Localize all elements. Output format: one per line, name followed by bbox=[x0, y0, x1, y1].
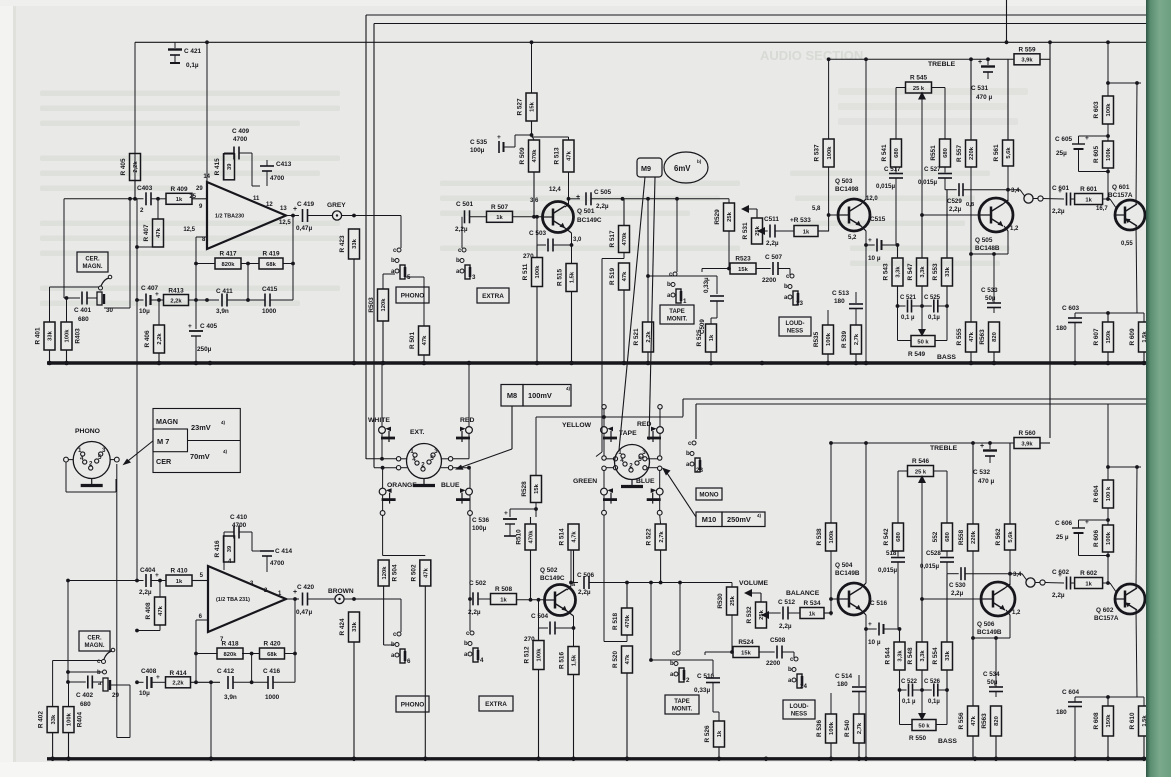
svg-text:4: 4 bbox=[480, 657, 484, 664]
resistor R413 bbox=[164, 288, 220, 306]
svg-text:BASS: BASS bbox=[938, 738, 957, 745]
svg-text:5: 5 bbox=[638, 456, 642, 463]
capacitor C501 2,2u bbox=[455, 201, 486, 233]
svg-text:0,47µ: 0,47µ bbox=[296, 609, 312, 616]
svg-text:R 415: R 415 bbox=[214, 158, 221, 175]
resistor R 532 bbox=[746, 593, 767, 628]
svg-text:C 512: C 512 bbox=[778, 599, 795, 606]
svg-text:R 407: R 407 bbox=[143, 224, 150, 241]
wire R527 col bbox=[530, 40, 534, 93]
resistor R 561 bbox=[993, 59, 1014, 166]
svg-text:100k: 100k bbox=[829, 530, 835, 544]
svg-text:GREEN: GREEN bbox=[573, 478, 597, 485]
wire Q505 collector stub bbox=[1003, 200, 1008, 204]
wire fb2 top right bbox=[252, 532, 260, 551]
svg-text:1k: 1k bbox=[717, 730, 723, 737]
svg-text:R 502: R 502 bbox=[410, 564, 417, 581]
capacitor C512 2,2u bbox=[769, 599, 800, 630]
label BASS ch2 bbox=[938, 738, 957, 745]
wire vol ch2 feed bbox=[731, 583, 733, 588]
svg-text:MAGN: MAGN bbox=[156, 417, 178, 426]
wire Q602 emitter up bbox=[1108, 465, 1141, 588]
wire ch2 input row bbox=[68, 579, 144, 583]
connector EXT DIN bbox=[407, 444, 442, 486]
svg-text:R 508: R 508 bbox=[495, 586, 512, 593]
wire C409 loop bbox=[223, 153, 225, 180]
svg-text:R 562: R 562 bbox=[995, 528, 1002, 545]
svg-text:TAPE: TAPE bbox=[669, 309, 685, 315]
capacitor C528 0,015u bbox=[920, 550, 954, 574]
svg-text:b: b bbox=[686, 451, 690, 457]
svg-text:100k: 100k bbox=[1106, 531, 1112, 545]
svg-text:100 k: 100 k bbox=[1106, 486, 1112, 501]
svg-text:25µ: 25µ bbox=[1056, 150, 1067, 157]
svg-text:820k: 820k bbox=[224, 652, 238, 658]
svg-text:25 k: 25 k bbox=[913, 86, 925, 92]
wire switch29 loop bbox=[110, 685, 130, 738]
svg-text:+: + bbox=[980, 443, 984, 450]
svg-text:470 µ: 470 µ bbox=[976, 94, 992, 101]
capacitor C517 0,015u bbox=[876, 166, 903, 245]
svg-text:C 416: C 416 bbox=[263, 668, 280, 675]
wire ch2 row left col bbox=[66, 579, 70, 682]
svg-text:R 401: R 401 bbox=[35, 327, 42, 344]
svg-text:C 517: C 517 bbox=[884, 166, 901, 173]
resistor R 610 bbox=[1129, 706, 1150, 759]
resistor R 556 bbox=[958, 638, 979, 759]
label +R533 bbox=[790, 217, 811, 224]
svg-text:2,2µ: 2,2µ bbox=[951, 590, 964, 597]
svg-text:Q 602: Q 602 bbox=[1096, 607, 1114, 614]
wire ch2 sig row bbox=[571, 582, 578, 584]
svg-text:C 532: C 532 bbox=[973, 469, 990, 476]
svg-text:5,2: 5,2 bbox=[848, 235, 857, 241]
svg-text:R 602: R 602 bbox=[1080, 570, 1097, 577]
capacitor C531 470u bbox=[971, 59, 995, 101]
wire R408 link bbox=[158, 579, 162, 597]
svg-text:R 512: R 512 bbox=[524, 646, 531, 663]
connector plug out ch1 a bbox=[1024, 194, 1033, 203]
wiper R531 bbox=[757, 227, 765, 235]
capacitor C409 4700 bbox=[224, 128, 252, 160]
svg-text:C 522: C 522 bbox=[901, 679, 918, 685]
svg-text:C 531: C 531 bbox=[971, 85, 988, 92]
svg-text:R 515: R 515 bbox=[557, 269, 564, 286]
capacitor C508 2200 bbox=[759, 637, 794, 667]
resistor R 547 bbox=[907, 215, 928, 306]
wire Q506 collector stub bbox=[1005, 584, 1010, 588]
label CER MAGN ch1 bbox=[77, 252, 108, 272]
svg-text:Q 501: Q 501 bbox=[577, 208, 595, 215]
svg-text:3,3k: 3,3k bbox=[898, 650, 904, 662]
svg-text:R 559: R 559 bbox=[1018, 46, 1035, 53]
wire R609 top bbox=[1137, 313, 1144, 322]
wire extra col ch2 bbox=[469, 599, 471, 631]
svg-text:0,33µ: 0,33µ bbox=[694, 687, 710, 694]
svg-text:1k: 1k bbox=[1085, 581, 1092, 587]
svg-text:0,33µ: 0,33µ bbox=[703, 277, 710, 293]
resistor R 402 bbox=[38, 707, 59, 759]
svg-text:13: 13 bbox=[280, 206, 287, 212]
svg-text:Q 506: Q 506 bbox=[977, 621, 995, 628]
svg-text:MAGN.: MAGN. bbox=[85, 643, 105, 649]
resistor R 531 bbox=[742, 209, 763, 244]
svg-text:33k: 33k bbox=[48, 330, 54, 340]
resistor R563 bbox=[979, 322, 1000, 363]
resistor R 601 bbox=[1075, 186, 1103, 205]
svg-text:25 µ: 25 µ bbox=[1056, 534, 1069, 541]
svg-text:R 416: R 416 bbox=[214, 540, 221, 557]
wire R545 right lead bbox=[932, 88, 946, 140]
svg-text:12: 12 bbox=[266, 202, 273, 208]
svg-text:R 419: R 419 bbox=[262, 251, 279, 258]
svg-text:680: 680 bbox=[896, 532, 902, 542]
wire R546 right lead bbox=[934, 471, 948, 523]
svg-text:270: 270 bbox=[523, 253, 534, 260]
svg-text:5: 5 bbox=[430, 455, 434, 462]
svg-text:R 410: R 410 bbox=[170, 568, 187, 575]
svg-text:R524: R524 bbox=[738, 639, 754, 646]
svg-text:0,015µ: 0,015µ bbox=[878, 567, 897, 574]
svg-text:WHITE: WHITE bbox=[368, 417, 390, 424]
svg-text:2,2µ: 2,2µ bbox=[779, 623, 792, 630]
svg-text:R 541: R 541 bbox=[881, 144, 888, 161]
svg-text:R 560: R 560 bbox=[1018, 430, 1035, 437]
svg-text:470k: 470k bbox=[622, 232, 628, 246]
svg-text:R 555: R 555 bbox=[956, 328, 963, 345]
svg-text:C528: C528 bbox=[926, 550, 941, 557]
resistor R 604 bbox=[1093, 480, 1114, 508]
wire R603 R605 junction bbox=[1106, 124, 1110, 141]
svg-text:2,2µ: 2,2µ bbox=[455, 226, 468, 233]
svg-text:250µ: 250µ bbox=[197, 346, 212, 353]
svg-text:R510: R510 bbox=[516, 529, 523, 545]
svg-text:1k: 1k bbox=[496, 215, 503, 221]
svg-text:+: + bbox=[497, 134, 501, 141]
wire R407 top bbox=[156, 197, 160, 219]
svg-text:24: 24 bbox=[800, 683, 807, 690]
svg-text:CER.: CER. bbox=[87, 636, 102, 642]
svg-text:1000: 1000 bbox=[265, 694, 280, 701]
svg-text:TAPE: TAPE bbox=[674, 699, 690, 705]
resistor 552 bbox=[932, 523, 953, 551]
svg-text:1,2: 1,2 bbox=[1010, 226, 1019, 232]
svg-text:120k: 120k bbox=[382, 566, 388, 580]
svg-text:5,6k: 5,6k bbox=[1006, 147, 1012, 159]
svg-text:C 535: C 535 bbox=[470, 139, 487, 146]
svg-text:29: 29 bbox=[196, 186, 203, 192]
svg-text:33k: 33k bbox=[352, 621, 358, 631]
capacitor C502 2,2u bbox=[468, 580, 490, 616]
wire R538 to base col bbox=[829, 551, 833, 616]
svg-text:R 557: R 557 bbox=[956, 145, 963, 162]
wiper R549 bass bbox=[918, 306, 926, 337]
svg-text:R403: R403 bbox=[75, 328, 82, 344]
svg-text:C 502: C 502 bbox=[469, 580, 486, 587]
capacitor C407 10u bbox=[139, 285, 163, 315]
transistor Q602 BC157A bbox=[1094, 584, 1145, 622]
resistor R 557 bbox=[956, 59, 977, 167]
resistor R 522 bbox=[646, 524, 667, 583]
svg-text:1,5k: 1,5k bbox=[572, 654, 578, 666]
svg-text:0,55: 0,55 bbox=[1121, 241, 1133, 247]
op-amp U2 1/2 TBA231 ch2 bbox=[199, 559, 286, 643]
svg-text:12,0: 12,0 bbox=[866, 196, 878, 202]
wire Q502 base bbox=[517, 598, 545, 602]
wire R408 bot bbox=[135, 625, 160, 632]
resistor R 420 bbox=[260, 641, 285, 660]
svg-text:2,2µ: 2,2µ bbox=[949, 206, 962, 213]
wire R562 to out row bbox=[1008, 550, 1012, 585]
wiper R530 bbox=[744, 589, 761, 597]
svg-text:1: 1 bbox=[618, 449, 622, 456]
svg-text:MAGN.: MAGN. bbox=[83, 264, 103, 270]
wire Q504 emitter bbox=[860, 609, 868, 759]
resistor R 513 bbox=[554, 140, 575, 172]
wire R522 bot dot bbox=[659, 581, 663, 585]
resistor R 414 bbox=[166, 670, 221, 688]
label LOUDNESS ch2 bbox=[783, 700, 815, 719]
switch contact 28 (mono) bbox=[686, 441, 703, 474]
svg-text:R529: R529 bbox=[714, 209, 721, 225]
wire switch30 to input bbox=[104, 199, 130, 308]
svg-text:2,7k: 2,7k bbox=[854, 333, 860, 345]
svg-text:15k: 15k bbox=[534, 483, 540, 493]
svg-text:C 506: C 506 bbox=[577, 572, 594, 579]
capacitor C405 250u bbox=[188, 300, 217, 365]
svg-text:CER: CER bbox=[156, 457, 172, 466]
svg-text:250mV: 250mV bbox=[727, 515, 751, 524]
svg-text:1,5k: 1,5k bbox=[570, 271, 576, 283]
resistor R 543 bbox=[883, 245, 904, 306]
svg-text:33k: 33k bbox=[945, 650, 951, 660]
pointer M8 bbox=[455, 406, 512, 470]
wiper R529 bbox=[741, 205, 757, 213]
wire out stage collector ch1 bbox=[1075, 226, 1137, 315]
capacitor C601 2,2u bbox=[1052, 185, 1075, 215]
wire tape output line D ch2 bbox=[696, 404, 1146, 439]
svg-text:C 419: C 419 bbox=[297, 201, 314, 208]
svg-text:220k: 220k bbox=[969, 146, 975, 160]
wire R535 col bbox=[827, 310, 829, 325]
resistor R 419 bbox=[259, 251, 283, 270]
svg-text:R528: R528 bbox=[521, 481, 528, 497]
svg-text:47k: 47k bbox=[625, 654, 631, 664]
resistor R 545 bbox=[906, 75, 932, 94]
wire R517-R519 jog bbox=[596, 253, 624, 457]
wire tape output line C ch2 bbox=[683, 399, 1146, 417]
capacitor C504 270 bbox=[524, 600, 575, 643]
wire phono left loop bbox=[64, 457, 116, 492]
svg-text:C 409: C 409 bbox=[232, 128, 249, 135]
svg-text:0,47µ: 0,47µ bbox=[296, 225, 312, 232]
svg-text:47k: 47k bbox=[156, 227, 162, 237]
resistor R 544 bbox=[885, 629, 906, 690]
resistor bbox=[794, 226, 829, 237]
svg-text:680: 680 bbox=[80, 701, 91, 708]
wire R523 row bbox=[702, 267, 731, 272]
svg-text:R 405: R 405 bbox=[120, 158, 127, 175]
wire R538 col bbox=[829, 441, 833, 523]
svg-text:C 510: C 510 bbox=[697, 673, 714, 680]
svg-text:2200: 2200 bbox=[766, 660, 781, 667]
svg-text:R 511: R 511 bbox=[522, 263, 529, 280]
wire R514 top bbox=[0, 0, 1, 1]
capacitor C415 1000 bbox=[262, 286, 293, 315]
svg-text:C408: C408 bbox=[141, 668, 157, 675]
jack RED tape bbox=[637, 421, 663, 442]
svg-text:4,7k: 4,7k bbox=[572, 531, 578, 543]
svg-text:C 601: C 601 bbox=[1052, 185, 1069, 192]
wire tone subrail ch2 bbox=[831, 441, 1014, 445]
wire tapemon col ch1 bbox=[676, 199, 678, 272]
resistor R 526 bbox=[704, 721, 725, 759]
svg-text:R558: R558 bbox=[958, 529, 965, 545]
svg-text:C 605: C 605 bbox=[1055, 136, 1072, 143]
svg-text:68k: 68k bbox=[267, 652, 277, 658]
svg-text:47k: 47k bbox=[567, 150, 573, 160]
svg-text:3: 3 bbox=[472, 274, 476, 281]
label LOUDNESS ch1 bbox=[779, 317, 811, 336]
svg-text:12,4: 12,4 bbox=[549, 187, 561, 193]
svg-text:23mV: 23mV bbox=[191, 423, 211, 432]
svg-text:BALANCE: BALANCE bbox=[786, 590, 820, 597]
capacitor C606 25u bbox=[1055, 519, 1108, 556]
svg-text:820k: 820k bbox=[222, 262, 236, 268]
svg-text:b: b bbox=[456, 258, 460, 264]
resistor R 603 bbox=[1093, 96, 1114, 124]
capacitor C419 bbox=[293, 201, 332, 232]
svg-text:+: + bbox=[868, 621, 872, 628]
svg-text:100k: 100k bbox=[826, 332, 832, 346]
jack WHITE bbox=[368, 417, 395, 442]
jack BLUE ext bbox=[441, 482, 472, 504]
wire tape output line B bbox=[374, 24, 1146, 468]
svg-text:C415: C415 bbox=[262, 286, 278, 293]
svg-text:C 501: C 501 bbox=[456, 201, 473, 208]
wire orange jack col bbox=[380, 468, 385, 556]
capacitor C421 bbox=[168, 42, 201, 69]
resistor R 406 bbox=[144, 325, 165, 363]
svg-text:470k: 470k bbox=[529, 530, 535, 544]
svg-text:47k: 47k bbox=[622, 271, 628, 281]
label PHONO ch2 bbox=[75, 428, 100, 435]
wire out diag ch1 bbox=[1020, 190, 1025, 196]
svg-text:R 537: R 537 bbox=[814, 144, 821, 161]
switch lever ch2 bbox=[104, 648, 115, 659]
resistor R 407 bbox=[143, 219, 164, 247]
svg-text:EXT.: EXT. bbox=[410, 429, 424, 436]
svg-text:70mV: 70mV bbox=[190, 452, 210, 461]
label TREBLE ch1 bbox=[928, 61, 956, 68]
wire top entry bbox=[1005, 0, 1009, 44]
svg-text:R563: R563 bbox=[981, 713, 988, 729]
label PHONO ch2 switch bbox=[396, 696, 429, 712]
resistor R558 bbox=[958, 443, 979, 551]
resistor R 509 bbox=[519, 140, 540, 217]
wire base row Q505 bbox=[920, 213, 979, 217]
wiper R550 bass bbox=[918, 690, 926, 721]
svg-text:AUDIO SECTION: AUDIO SECTION bbox=[760, 48, 863, 63]
label BASS ch1 bbox=[937, 354, 956, 361]
resistor R 415 bbox=[214, 154, 235, 180]
wire input row left bbox=[63, 199, 65, 298]
capacitor C410 4700 bbox=[224, 514, 252, 570]
capacitor C530 2,2u bbox=[949, 567, 1022, 597]
svg-text:2,2k: 2,2k bbox=[172, 681, 184, 687]
resistor R 560 bbox=[1014, 430, 1050, 449]
svg-text:1/2 TBA230: 1/2 TBA230 bbox=[215, 214, 244, 220]
switch contact 1 (tape monitor ch1) bbox=[667, 272, 687, 305]
wire R604 col bbox=[1106, 404, 1110, 480]
bass cap row ch1 bbox=[896, 304, 949, 308]
wire vol ch1 feed bbox=[728, 199, 730, 203]
svg-text:R 420: R 420 bbox=[263, 641, 280, 648]
resistor R 542 bbox=[883, 523, 904, 551]
label EXTRA ch1 bbox=[477, 288, 509, 303]
resistor R 534 bbox=[800, 600, 831, 619]
svg-text:R 418: R 418 bbox=[221, 641, 238, 648]
svg-text:C403: C403 bbox=[137, 185, 153, 192]
svg-text:6mV: 6mV bbox=[674, 164, 691, 173]
resistor R 521 bbox=[633, 322, 654, 363]
svg-text:50 k: 50 k bbox=[918, 723, 930, 729]
resistor R510 bbox=[516, 517, 537, 600]
resistor R 514 bbox=[559, 524, 580, 583]
resistor R 527 bbox=[517, 93, 538, 135]
resistor R523 bbox=[730, 256, 756, 275]
svg-text:C 536: C 536 bbox=[472, 517, 489, 524]
wire minus input bbox=[194, 237, 207, 302]
svg-text:3,3k: 3,3k bbox=[920, 266, 926, 278]
wire ch2 row b bbox=[68, 671, 103, 673]
connector TAPE DIN bbox=[615, 445, 650, 487]
svg-text:4): 4) bbox=[221, 420, 226, 425]
svg-text:3: 3 bbox=[434, 448, 438, 455]
capacitor C416 1000 bbox=[263, 668, 295, 701]
svg-text:2: 2 bbox=[140, 207, 144, 214]
svg-text:2200: 2200 bbox=[762, 277, 777, 284]
svg-text:16,7: 16,7 bbox=[1096, 206, 1108, 212]
svg-text:BC1498: BC1498 bbox=[835, 186, 859, 193]
wire ch1 mix row bbox=[569, 198, 581, 200]
svg-text:R 609: R 609 bbox=[1129, 328, 1136, 345]
svg-text:C 525: C 525 bbox=[924, 295, 941, 301]
wire R524 row bbox=[705, 650, 734, 655]
svg-text:C 602: C 602 bbox=[1052, 569, 1069, 576]
svg-text:R 548: R 548 bbox=[907, 647, 914, 664]
svg-text:1,2: 1,2 bbox=[1012, 610, 1021, 616]
resistor R 511 bbox=[522, 245, 543, 363]
wire R602 to Q602 bbox=[1103, 581, 1117, 592]
svg-text:b: b bbox=[97, 670, 101, 676]
svg-text:R 518: R 518 bbox=[612, 613, 619, 630]
wire brown to switch6 bbox=[400, 599, 402, 632]
wire opamp2 out bbox=[286, 598, 299, 600]
svg-text:2: 2 bbox=[686, 677, 690, 684]
svg-text:R 610: R 610 bbox=[1129, 712, 1136, 729]
svg-text:0,015µ: 0,015µ bbox=[920, 563, 939, 570]
wire Q501 emitter bbox=[565, 228, 572, 264]
svg-text:2,2µ: 2,2µ bbox=[578, 589, 591, 596]
capacitor C518 0,015u bbox=[878, 550, 905, 629]
svg-text:33k: 33k bbox=[352, 238, 358, 248]
wire fb2 right vert bbox=[293, 597, 297, 682]
resistor R 553 bbox=[932, 190, 953, 306]
svg-text:6: 6 bbox=[407, 658, 411, 665]
svg-text:100k: 100k bbox=[1106, 147, 1112, 161]
wire C536 branch bbox=[510, 509, 536, 517]
